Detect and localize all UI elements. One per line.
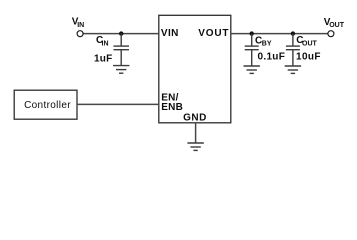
capacitor C_BY <box>245 34 259 66</box>
capacitor C_OUT <box>286 34 300 66</box>
node: output junction <box>291 31 295 35</box>
ground (C_OUT) <box>285 66 301 73</box>
wire: VOUT output <box>231 33 328 35</box>
svg-text:Controller: Controller <box>24 100 71 111</box>
svg-text:VIN: VIN <box>161 28 179 39</box>
terminal VOUT circle <box>328 31 334 37</box>
terminal VIN circle <box>77 31 83 37</box>
Controller box <box>14 90 77 119</box>
node: bypass junction <box>250 31 254 35</box>
svg-text:0.1uF: 0.1uF <box>258 52 286 63</box>
svg-text:ENB: ENB <box>161 102 183 113</box>
ground (C_BY) <box>244 66 260 73</box>
svg-text:OUT: OUT <box>302 40 318 47</box>
svg-text:OUT: OUT <box>329 22 345 29</box>
ground (IC GND pin) <box>187 143 203 150</box>
wire: EN from controller <box>77 103 159 105</box>
svg-text:VOUT: VOUT <box>198 28 229 39</box>
svg-text:1uF: 1uF <box>94 54 112 65</box>
svg-text:10uF: 10uF <box>296 51 321 62</box>
svg-text:BY: BY <box>262 41 272 48</box>
wire: GND lead <box>195 123 197 143</box>
ground (C_IN) <box>113 66 129 74</box>
capacitor C_IN <box>114 34 130 66</box>
svg-text:IN: IN <box>77 22 84 29</box>
node: input junction <box>119 31 123 35</box>
svg-text:IN: IN <box>102 40 109 47</box>
svg-text:GND: GND <box>183 112 207 123</box>
wire: VIN input <box>83 33 159 35</box>
regulator IC U1 <box>159 15 231 123</box>
